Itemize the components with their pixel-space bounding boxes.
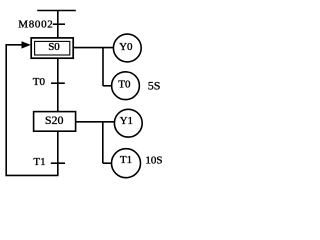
wire: loop-back top horizontal into arrow xyxy=(6,44,23,46)
svg-text:S20: S20 xyxy=(45,113,64,127)
svg-text:Y0: Y0 xyxy=(119,41,133,53)
svg-text:T1: T1 xyxy=(120,154,132,166)
svg-text:T1: T1 xyxy=(33,156,45,168)
transition tick T0 xyxy=(51,82,65,84)
wire: main vertical from rail to step S0 xyxy=(57,11,59,39)
svg-text:S0: S0 xyxy=(48,41,60,53)
action circle T1 xyxy=(112,149,141,178)
wire: stub to T1 action circle xyxy=(103,162,112,164)
wire: S0 output to branch xyxy=(74,47,114,49)
wire: loop-back left vertical xyxy=(5,44,7,176)
svg-text:T0: T0 xyxy=(33,76,46,88)
arrowhead into initial step S0 xyxy=(22,41,31,48)
initial step S0 inner box xyxy=(35,41,70,55)
wire: S20 output to branch xyxy=(76,121,115,123)
transition tick M8002 xyxy=(53,23,65,25)
wire: branch vertical to T0 action xyxy=(102,48,104,86)
wire: loop-back bottom horizontal xyxy=(6,174,59,176)
top power rail bar xyxy=(37,10,76,12)
action circle Y0 xyxy=(113,34,141,62)
action circle T0 xyxy=(112,72,140,100)
svg-text:10S: 10S xyxy=(145,155,162,167)
step S20 box xyxy=(34,112,76,132)
wire: vertical S20 to bottom xyxy=(57,131,59,176)
transition tick T1 xyxy=(51,162,65,164)
wire: branch vertical to T1 action xyxy=(102,122,104,163)
svg-text:M8002: M8002 xyxy=(18,19,53,31)
action circle Y1 xyxy=(114,109,142,137)
wire: vertical S0 to S20 xyxy=(57,58,59,112)
svg-text:T0: T0 xyxy=(118,79,131,91)
svg-text:Y1: Y1 xyxy=(120,115,133,127)
wire: stub to T0 action circle xyxy=(103,85,112,87)
svg-text:5S: 5S xyxy=(148,78,161,92)
initial step S0 outer box xyxy=(31,38,73,58)
